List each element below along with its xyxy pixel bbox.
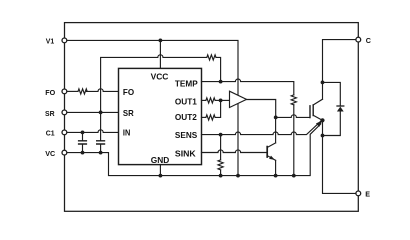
svg-text:SR: SR [123, 108, 134, 118]
node GND rail at R5 [219, 174, 223, 178]
capacitor C2 bottom lead [100, 145, 102, 153]
wire VCC lead from V1 rail to IC top [159, 40, 161, 68]
terminal VC [62, 150, 67, 155]
diode D1 triangle [337, 107, 344, 112]
svg-text:C1: C1 [46, 128, 56, 137]
wire C1 terminal to IC IN pin with hop over x=100.6 [68, 130, 119, 133]
wire diode branch from collector node [323, 82, 341, 106]
wire SENS pin with hops over 238, 275.6, 293.8 then diagonal to emitter node [202, 121, 322, 135]
wire V1 rail to x=238 vertical down to GND rail [68, 40, 238, 175]
svg-text:FO: FO [45, 88, 55, 97]
terminal SR [62, 110, 67, 115]
node SR/cap2 [99, 111, 103, 115]
node C1/cap1 [81, 131, 85, 135]
terminal C [356, 37, 361, 42]
svg-text:OUT1: OUT1 [175, 96, 197, 106]
node collector/diode tap [321, 81, 325, 85]
package outline [65, 23, 359, 212]
IGBT Q2 body bar [312, 105, 314, 116]
wire R3 to buffer input [215, 99, 229, 101]
transistor Q1 emitter arrow [269, 156, 275, 160]
node GND rail at GND pin [159, 174, 163, 178]
node V1/VCC [159, 39, 163, 43]
wire SENS pulldown top [220, 135, 222, 160]
node VC/cap1 [81, 151, 85, 155]
wire R5 bottom to GND rail [220, 170, 222, 176]
wire TEMP pin with hop over x=238 to vertical resistor [202, 79, 294, 95]
capacitor C1 plates [79, 141, 87, 144]
svg-text:TEMP: TEMP [175, 78, 198, 88]
svg-text:SR: SR [45, 109, 55, 118]
diode D1 cathode bar [337, 105, 344, 107]
wire emitter node down to E terminal [323, 120, 356, 193]
svg-text:GND: GND [151, 155, 170, 165]
resistor R2 (SR to TEMP link) [207, 55, 216, 60]
node sense/diode anode [321, 134, 325, 138]
wire diode anode to emitter sense node [323, 111, 341, 135]
svg-text:SINK: SINK [175, 149, 196, 159]
svg-text:FO: FO [123, 87, 135, 97]
IGBT Q2 emitter lead [313, 115, 322, 120]
terminal V1 [62, 38, 67, 43]
node GND rail at Q1 emitter [274, 174, 278, 178]
wire FO resistor to IC FO pin with hop over x=100.6 [87, 89, 119, 92]
svg-text:E: E [365, 190, 370, 199]
wire SR node up, across y=57 with hop over VCC lead [101, 55, 207, 141]
svg-text:OUT2: OUT2 [175, 112, 197, 122]
node GND rail at V1 pulldown [236, 174, 240, 178]
IGBT Q2 emitter arrowhead [316, 120, 323, 127]
wire GND pin to rail [159, 165, 161, 176]
IGBT Q2 gate bar [309, 106, 311, 118]
wire OUT1 pin stub [202, 99, 206, 101]
capacitor C1 bottom lead [82, 145, 84, 153]
op-amp buffer U2 [230, 91, 247, 107]
transistor Q1 base bar [266, 147, 268, 157]
svg-text:IN: IN [123, 128, 130, 138]
node SENS [219, 133, 223, 137]
svg-text:C: C [366, 36, 372, 45]
resistor R6 (TEMP pulldown, vertical) [291, 95, 296, 105]
resistor R1 (FO series) [78, 89, 87, 94]
wire VC terminal to GND rail and riser to SENS bend [68, 124, 321, 176]
IC U1 body [119, 68, 202, 164]
wire R6 bottom to GND rail [293, 105, 295, 176]
resistor R3 (OUT1 series) [206, 98, 215, 103]
transistor Q1 collector lead [267, 143, 275, 148]
svg-text:VC: VC [45, 149, 55, 158]
terminal C1 [62, 130, 67, 135]
transistor Q1 emitter lead [267, 156, 275, 161]
node OUT1 [219, 99, 223, 103]
wire FO terminal to resistor [68, 90, 78, 92]
terminal FO [62, 89, 67, 94]
capacitor C2 plates [97, 141, 105, 144]
resistor R5 (SENS pulldown, vertical) [218, 160, 223, 170]
wire R4 up to OUT1 node [215, 100, 221, 117]
wire SINK pin with hops over 220.6 and 238 to Q1 base [202, 150, 267, 153]
node gate [274, 116, 278, 120]
svg-text:VCC: VCC [151, 72, 169, 82]
wire gate node to IGBT gate with hop over 293.8 [276, 115, 310, 118]
resistor R4 (OUT2 series) [206, 115, 215, 120]
node VC/cap2 [99, 151, 103, 155]
svg-text:V1: V1 [46, 37, 55, 46]
wire C terminal to IGBT collector [323, 40, 356, 100]
wire SR terminal to IC SR pin [68, 111, 119, 113]
node emitter [320, 118, 324, 122]
svg-text:SENS: SENS [175, 130, 198, 140]
node TEMP [219, 80, 223, 84]
wire R2 to TEMP node [216, 57, 221, 81]
IGBT Q2 collector diagonal [313, 99, 323, 105]
wire OUT2 pin stub [202, 116, 206, 118]
terminal E [356, 191, 361, 196]
wire Q1 collector riser [275, 117, 277, 142]
capacitor C1 top lead [82, 132, 84, 140]
wire buffer output to gate node [247, 100, 276, 118]
wire Q1 emitter to GND rail [275, 160, 277, 175]
node GND rail at R6 [292, 174, 296, 178]
